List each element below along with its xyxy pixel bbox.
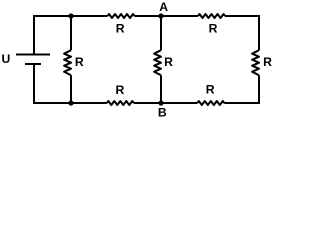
- wire right rail lower: [258, 75, 260, 104]
- resistor R branch2 (between A and B): [154, 50, 161, 75]
- wire top-middle segment: [135, 15, 199, 17]
- battery U top plate: [16, 54, 50, 56]
- wire top-right segment: [225, 15, 260, 17]
- svg-text:R: R: [263, 55, 272, 69]
- junction node A: [158, 13, 163, 18]
- svg-text:B: B: [158, 106, 167, 120]
- resistor R branch1: [64, 50, 71, 75]
- resistor R top-right: [198, 14, 225, 18]
- junction node B: [158, 100, 163, 105]
- wire left rail lower: [33, 65, 35, 104]
- svg-text:R: R: [116, 22, 125, 36]
- svg-text:R: R: [115, 83, 124, 97]
- wire branch1 upper: [70, 16, 72, 50]
- wire left rail upper: [33, 15, 35, 54]
- junction branch1 bottom: [68, 100, 73, 105]
- wire bottom-left segment: [33, 102, 107, 104]
- resistor R top-left: [108, 14, 135, 18]
- svg-text:A: A: [159, 0, 168, 14]
- wire branch1 lower: [70, 75, 72, 103]
- wire right rail upper: [258, 15, 260, 50]
- svg-text:R: R: [209, 22, 218, 36]
- svg-text:R: R: [75, 55, 84, 69]
- junction branch1 top: [68, 13, 73, 18]
- wire branch2 upper (node A down): [160, 16, 162, 50]
- wire branch2 lower (to node B): [160, 75, 162, 103]
- svg-text:R: R: [206, 83, 215, 97]
- resistor R bottom-left: [107, 101, 134, 105]
- wire bottom-middle segment: [134, 102, 198, 104]
- svg-text:U: U: [2, 52, 11, 66]
- svg-text:R: R: [164, 55, 173, 69]
- resistor R right rail: [252, 50, 259, 75]
- wire bottom-right segment: [224, 102, 260, 104]
- battery U bottom plate: [25, 63, 41, 65]
- wire top-left segment: [33, 15, 108, 17]
- resistor R bottom-right: [197, 101, 224, 105]
